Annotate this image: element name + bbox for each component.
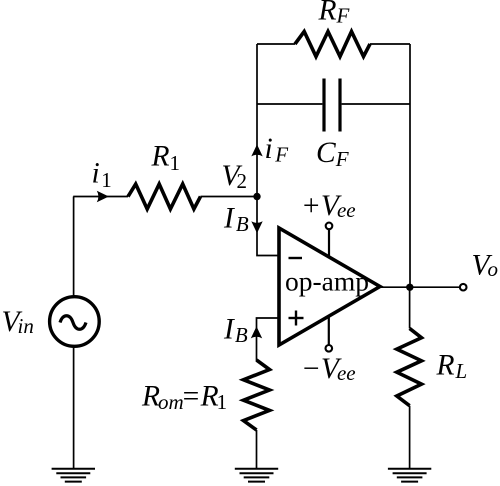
wire: R1 to node V2 <box>201 196 258 198</box>
wire: output node down to RL <box>409 287 411 328</box>
wire: RL to ground <box>409 406 411 468</box>
terminal Vo <box>460 284 467 291</box>
wire: Vin to ground <box>73 347 75 468</box>
wire: node V2 down to inverting input <box>257 197 279 256</box>
wire: V_in top lead up from source <box>73 197 75 297</box>
arrow i1 current <box>97 191 109 202</box>
node output junction dot <box>406 284 413 291</box>
terminal -Vee <box>326 345 333 352</box>
resistor Rom <box>244 360 270 430</box>
wire: output from op-amp <box>380 286 460 288</box>
svg-text:Rom=R1: Rom=R1 <box>141 381 227 415</box>
node V2 junction dot <box>253 193 260 200</box>
wire: Rom to ground <box>256 430 258 468</box>
wire: CF right lead <box>342 103 410 105</box>
resistor RF <box>295 32 370 57</box>
op-amp U1 <box>279 228 380 345</box>
wire: noninverting input to junction <box>257 318 280 361</box>
wire: input horizontal to R1 <box>73 196 128 198</box>
wire: CF left lead <box>257 103 322 105</box>
wire: feedback left vertical branch <box>256 44 258 197</box>
svg-text:op-amp: op-amp <box>285 266 369 297</box>
resistor R1 <box>128 184 201 209</box>
capacitor CF <box>324 79 340 132</box>
terminal +Vee <box>326 223 333 230</box>
resistor RL <box>397 328 422 405</box>
wire: negative supply lead <box>328 316 330 345</box>
arrow iF current up <box>251 144 262 156</box>
source Vin <box>50 297 100 347</box>
wire: RF right lead <box>370 43 410 45</box>
wire: RF left lead <box>257 43 295 45</box>
svg-text:RF: RF <box>318 0 350 27</box>
arrow IB current down <box>251 221 262 233</box>
wire: feedback right vertical branch <box>409 44 411 288</box>
arrow IB current up into + input <box>251 326 262 338</box>
ground under Vin <box>52 469 95 482</box>
ground under Rom <box>235 469 278 482</box>
wire: positive supply lead <box>328 229 330 258</box>
ground under RL <box>388 469 431 482</box>
